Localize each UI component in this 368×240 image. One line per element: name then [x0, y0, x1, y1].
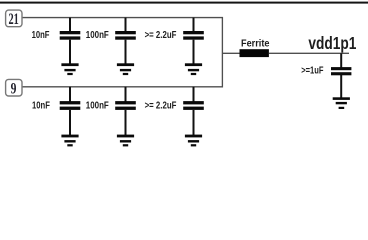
svg-text:100nF: 100nF	[86, 30, 109, 41]
svg-text:Ferrite: Ferrite	[241, 39, 270, 50]
svg-text:10nF: 10nF	[32, 30, 50, 41]
svg-text:vdd1p1: vdd1p1	[308, 33, 356, 53]
svg-text:>=1uF: >=1uF	[301, 66, 323, 77]
svg-text:10nF: 10nF	[32, 101, 50, 112]
svg-text:>= 2.2uF: >= 2.2uF	[145, 101, 177, 112]
svg-text:100nF: 100nF	[86, 101, 109, 112]
svg-text:9: 9	[11, 80, 17, 97]
svg-text:21: 21	[9, 11, 19, 28]
svg-text:>= 2.2uF: >= 2.2uF	[145, 30, 177, 41]
